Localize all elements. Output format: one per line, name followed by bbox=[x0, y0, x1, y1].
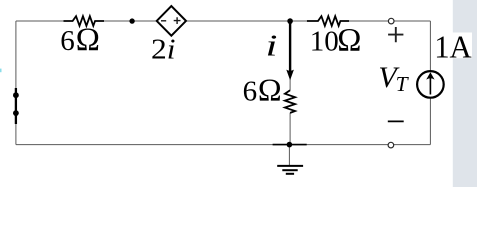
svg-text:i: i bbox=[266, 28, 278, 63]
svg-text:2i: 2i bbox=[151, 34, 176, 65]
svg-text:Ω: Ω bbox=[337, 22, 361, 58]
svg-text:Ω: Ω bbox=[76, 22, 100, 58]
svg-text:6: 6 bbox=[60, 25, 75, 57]
svg-text:6: 6 bbox=[243, 76, 258, 108]
svg-text:T: T bbox=[396, 72, 410, 96]
svg-text:Ω: Ω bbox=[258, 72, 282, 108]
svg-text:10: 10 bbox=[310, 25, 339, 57]
svg-text:1A: 1A bbox=[434, 29, 472, 64]
